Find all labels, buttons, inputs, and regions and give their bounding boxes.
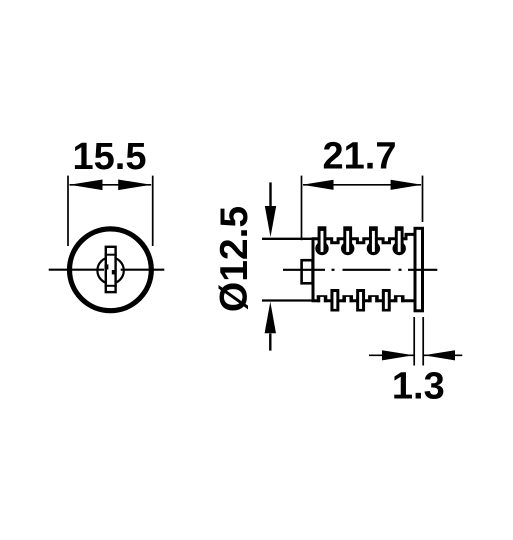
svg-text:15.5: 15.5 (73, 136, 147, 178)
svg-text:21.7: 21.7 (323, 136, 397, 178)
svg-text:Ø12.5: Ø12.5 (213, 206, 256, 312)
svg-text:1.3: 1.3 (392, 366, 445, 408)
